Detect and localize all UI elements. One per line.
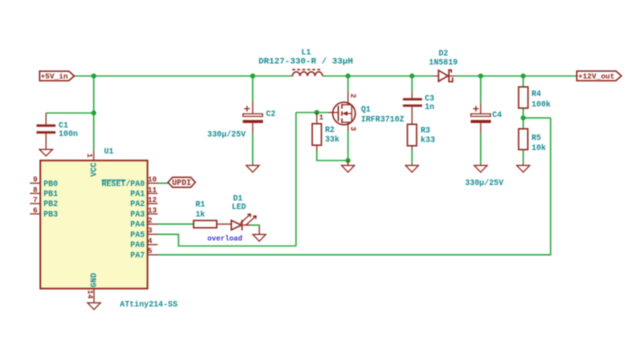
wire UPDI link [157,182,168,184]
svg-text:100n: 100n [59,130,78,139]
pin 9 PB0 [30,177,58,189]
ground below IC [88,303,101,310]
svg-text:100k: 100k [532,101,551,110]
wire R4 R5 junction link [523,117,550,119]
pin 11 PA1 [130,187,157,199]
junction C2 [250,74,255,79]
flag +5V_in [40,71,75,82]
svg-text:330µ/25V: 330µ/25V [465,179,504,188]
capacitor C2 polarized [207,101,276,139]
junction Q1 source/R2/gnd [346,158,351,163]
pin 1 VCC [85,150,99,177]
svg-text:DR127-330-R / 33µH: DR127-330-R / 33µH [259,57,354,66]
pin 12 PA2 [130,197,157,209]
pin 10 RESET/PA0 [102,177,158,189]
svg-text:6: 6 [33,207,38,215]
svg-text:11: 11 [148,187,158,195]
svg-text:12: 12 [148,197,158,205]
svg-text:R5: R5 [532,134,542,143]
svg-text:1N5819: 1N5819 [429,59,458,68]
pin 2 PA4 [130,218,157,230]
wire gate link [296,112,329,114]
junction C1/VCC [91,111,96,116]
wire rail right segment [455,75,577,77]
svg-text:PA1: PA1 [130,190,145,199]
transistor Q1 MOSFET [319,92,404,132]
junction C3 [410,74,415,79]
svg-text:330µ/25V: 330µ/25V [207,130,246,139]
svg-text:LED: LED [232,203,247,212]
svg-text:R1: R1 [196,200,206,209]
svg-text:1k: 1k [196,211,206,220]
ground below D1 [253,234,266,241]
svg-text:U1: U1 [104,147,114,156]
svg-text:1: 1 [319,115,324,123]
wire C3 top [411,76,413,92]
wire +5V rail left segment [74,75,292,77]
wire R2 bottom link [317,151,348,161]
SECTION: ic [30,147,178,309]
wire C2 top [252,76,254,101]
wire C4 top [480,76,482,103]
capacitor C3 [403,92,435,124]
svg-text:D2: D2 [439,49,449,58]
wire gate column [295,113,297,247]
svg-text:+12V_out: +12V_out [578,74,614,82]
svg-text:3: 3 [348,127,356,132]
wire R3 ground [411,150,413,164]
ground below R5 [517,164,530,173]
svg-text:C2: C2 [266,110,276,119]
svg-text:8: 8 [33,187,38,195]
svg-text:PB1: PB1 [44,190,59,199]
svg-text:10k: 10k [532,144,547,153]
pin 4 PA6 [130,238,157,250]
junction R4/R5 feedback [521,115,526,120]
pin 3 PA5 [130,228,157,240]
ground below C2 [246,164,259,173]
wire Q1 source [347,131,349,161]
wire C4 ground [480,133,482,164]
svg-text:PB2: PB2 [44,200,59,209]
SECTION: components [37,48,622,243]
pin 13 PA3 [130,207,157,219]
svg-text:3: 3 [148,228,153,236]
capacitor C1 [37,113,79,150]
svg-text:+5V_in: +5V_in [41,74,69,82]
svg-text:2: 2 [148,218,153,226]
svg-text:VCC: VCC [90,162,99,177]
svg-text:IRFR3710Z: IRFR3710Z [361,116,404,125]
ground below Q1 source [342,161,355,173]
pin 8 PB1 [30,187,58,199]
svg-text:7: 7 [33,197,38,205]
svg-text:L1: L1 [301,48,311,57]
ground below R3 [406,164,419,173]
svg-text:1: 1 [85,153,93,158]
svg-text:14: 14 [85,290,93,300]
svg-text:5: 5 [148,248,153,256]
svg-text:UPDI: UPDI [172,179,191,188]
svg-text:C1: C1 [59,122,69,131]
svg-text:PA7: PA7 [130,251,145,260]
svg-text:9: 9 [33,177,38,185]
resistor R3 [407,124,435,149]
resistor R5 [519,129,547,153]
svg-text:k33: k33 [421,136,436,145]
svg-text:Q1: Q1 [361,106,371,115]
svg-text:R3: R3 [421,126,431,135]
svg-text:13: 13 [148,207,158,215]
flag +12V_out [577,71,622,82]
svg-text:R2: R2 [325,126,335,135]
pin 5 PA7 [130,248,157,260]
svg-text:overload: overload [207,236,242,244]
svg-text:PB0: PB0 [44,180,59,189]
svg-text:PA4: PA4 [130,221,145,230]
junction gate/R2 [314,110,319,115]
wire R5 ground [522,150,524,164]
svg-text:PB3: PB3 [44,211,59,220]
capacitor C4 polarized [465,103,504,188]
svg-text:2: 2 [348,94,356,99]
svg-text:R4: R4 [532,90,542,99]
wire C1 link [46,112,94,114]
svg-text:33k: 33k [325,136,340,145]
resistor R4 [519,87,551,110]
resistor R2 [312,113,339,151]
SECTION: wires [46,74,577,255]
wire rail mid segment [323,75,434,77]
svg-text:PA5: PA5 [130,231,145,240]
flag UPDI [168,177,195,188]
ground below C1 [39,149,52,156]
junction Q1 drain [346,74,351,79]
ground below C4 [474,164,487,173]
wire C2 bottom [252,133,254,164]
svg-text:GND: GND [90,273,99,288]
svg-text:ATtiny214-SS: ATtiny214-SS [120,300,178,309]
pin 6 PB3 [30,207,58,219]
pin 7 PB2 [30,197,58,209]
junction R4 [521,74,526,79]
svg-text:PA6: PA6 [130,241,145,250]
svg-text:PA3: PA3 [130,211,145,220]
junction +5V/VCC [91,74,96,79]
svg-text:10: 10 [148,177,158,185]
IC U1 body [40,161,147,289]
wire PA4 to R1 [157,223,193,225]
wire R4 top [522,76,524,87]
svg-text:RESET/PA0: RESET/PA0 [102,180,145,189]
wire PA5 jog [157,234,296,246]
wire R4 to R5 [522,108,524,128]
svg-text:C4: C4 [492,111,502,120]
pin 14 GND [85,273,99,303]
wire Q1 drain [347,76,349,92]
svg-text:4: 4 [148,238,153,246]
diode D1 LED [207,195,260,244]
junction C4 [478,74,483,79]
wire PA7 feedback [157,118,550,255]
diode D2 schottky [429,49,458,81]
svg-text:C3: C3 [425,95,435,104]
svg-text:1n: 1n [425,103,435,112]
resistor R1 [194,200,232,228]
wire VCC column [93,76,95,150]
svg-text:PA2: PA2 [130,200,145,209]
inductor L1 [259,48,354,76]
